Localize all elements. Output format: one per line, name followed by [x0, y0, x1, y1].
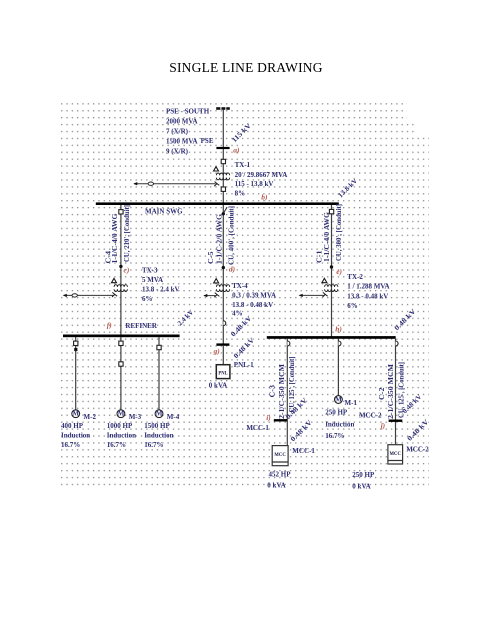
- TX-2 ground arrow: [299, 294, 303, 297]
- TX-3 neutral ground wire: [64, 294, 114, 296]
- junction dot C-5: [222, 266, 225, 269]
- svg-text:PNL-1: PNL-1: [234, 361, 254, 369]
- TX-1 neutral resistor ellipse: [148, 182, 153, 185]
- transformer TX-2 delta: [322, 278, 327, 282]
- svg-text:16.7%: 16.7%: [61, 441, 80, 449]
- svg-text:8%: 8%: [235, 190, 246, 198]
- svg-text:b): b): [261, 192, 268, 201]
- svg-text:7 (X/R): 7 (X/R): [166, 127, 189, 135]
- svg-text:MAIN SWG: MAIN SWG: [145, 207, 183, 215]
- svg-text:MCC: MCC: [274, 453, 286, 458]
- svg-text:TX-2: TX-2: [347, 273, 363, 281]
- M-3 ratings: [107, 422, 136, 449]
- transformer TX-1 windings: [216, 173, 229, 175]
- breaker M-2: [74, 341, 78, 345]
- fuse C-3: [287, 341, 290, 346]
- fuse C-2: [396, 341, 399, 346]
- svg-text:M-3: M-3: [129, 413, 142, 421]
- svg-text:6%: 6%: [347, 302, 358, 310]
- svg-text:115 - 13.8 kV: 115 - 13.8 kV: [235, 180, 274, 188]
- TX-1 ground arrow: [133, 182, 137, 185]
- transformer TX-1 delta: [214, 167, 219, 171]
- svg-text:a): a): [233, 145, 240, 154]
- breaker CB1: [221, 159, 225, 163]
- transformer TX-2 label: [347, 273, 389, 310]
- bus PSE: [216, 147, 229, 149]
- svg-text:Induction: Induction: [107, 432, 136, 440]
- utility source PSE-SOUTH: [216, 107, 230, 110]
- cable C-4 labels: [105, 205, 131, 264]
- cable C-2 labels: [378, 362, 405, 419]
- svg-text:9 (X/R): 9 (X/R): [166, 147, 189, 155]
- svg-text:2-1/C-350 MCM: 2-1/C-350 MCM: [387, 364, 395, 419]
- transformer TX-1 label: [235, 161, 288, 198]
- transformer TX-3 delta: [112, 278, 117, 282]
- svg-text:SINGLE LINE DRAWING: SINGLE LINE DRAWING: [169, 60, 322, 75]
- svg-text:h): h): [335, 325, 342, 334]
- svg-text:20 / 29.8667 MVA: 20 / 29.8667 MVA: [235, 171, 288, 179]
- TX-2 neutral ground wire: [299, 294, 324, 296]
- utility label PSE - SOUTH ratings: [166, 107, 210, 155]
- wire cable C-3: [286, 339, 288, 446]
- svg-text:6%: 6%: [142, 295, 153, 303]
- wire cable C-4: [120, 205, 122, 336]
- svg-text:j): j): [380, 421, 386, 430]
- svg-text:TX-4: TX-4: [232, 282, 248, 290]
- svg-text:2-1/C-350 MCM: 2-1/C-350 MCM: [278, 364, 286, 419]
- transformer TX-3 label: [142, 267, 180, 303]
- svg-text:250 HP: 250 HP: [352, 471, 375, 479]
- load MCC-1 box: [272, 446, 288, 466]
- svg-text:TX-1: TX-1: [235, 161, 251, 169]
- wire g bus to PNL-1: [222, 346, 224, 365]
- bus MCC-1: [274, 419, 287, 421]
- junction dot C-4: [119, 265, 122, 268]
- svg-text:TX-3: TX-3: [142, 267, 158, 275]
- svg-text:CU, 210', [Conduit]: CU, 210', [Conduit]: [123, 205, 131, 262]
- svg-text:M: M: [118, 410, 125, 418]
- svg-text:1500 MVA: 1500 MVA: [166, 137, 198, 145]
- svg-text:e): e): [336, 267, 342, 276]
- contactor M-2: [74, 348, 77, 351]
- cable C-3 labels: [269, 357, 297, 420]
- svg-text:M: M: [156, 410, 163, 418]
- svg-text:Induction: Induction: [144, 432, 173, 440]
- bus g 0.48kV: [216, 343, 229, 345]
- svg-text:c): c): [124, 266, 130, 275]
- motor M-4: [155, 410, 163, 418]
- transformer TX-4 delta: [214, 279, 219, 283]
- svg-text:1-1/C-4/0 AWG: 1-1/C-4/0 AWG: [111, 213, 119, 264]
- svg-text:4%: 4%: [232, 310, 243, 318]
- panel PNL-1 box: [216, 365, 230, 379]
- cable C-1 labels: [316, 204, 344, 263]
- svg-text:M-1: M-1: [345, 399, 358, 407]
- svg-text:0 kVA: 0 kVA: [267, 482, 285, 490]
- wire cable C-5: [222, 205, 224, 344]
- grid dots: [61, 103, 429, 486]
- switch tick C-5: [223, 207, 227, 213]
- svg-text:1-1/C-2/0 AWG: 1-1/C-2/0 AWG: [215, 213, 223, 264]
- wire PSE bus to breaker: [222, 149, 224, 204]
- breaker C-1 top: [329, 209, 333, 213]
- svg-text:5 MVA: 5 MVA: [142, 276, 163, 284]
- wire source to PSE bus: [222, 110, 224, 148]
- svg-text:13.8 - 2.4 kV: 13.8 - 2.4 kV: [142, 286, 180, 294]
- svg-text:C-5: C-5: [207, 251, 215, 264]
- svg-text:i): i): [266, 413, 271, 422]
- svg-text:PSE: PSE: [201, 137, 214, 145]
- breaker CB2: [221, 187, 225, 191]
- svg-text:16.7%: 16.7%: [144, 441, 163, 449]
- svg-text:g): g): [213, 347, 221, 356]
- junction dot C-1: [330, 265, 333, 268]
- motor M-2: [72, 410, 80, 418]
- svg-text:MCC-1: MCC-1: [292, 447, 315, 455]
- fuse on PNL feeder: [223, 321, 225, 326]
- svg-text:0 kVA: 0 kVA: [209, 382, 227, 390]
- motor M-3: [117, 410, 125, 418]
- svg-text:452 HP: 452 HP: [269, 471, 292, 479]
- wire drop M-2: [75, 337, 77, 410]
- svg-text:Induction: Induction: [325, 421, 354, 429]
- bus MCC-2: [389, 420, 403, 422]
- transformer TX-3 windings: [114, 285, 127, 287]
- fuse M-1: [339, 341, 342, 346]
- breaker M-4: [157, 345, 161, 349]
- transformer TX-2 wye: [323, 292, 328, 297]
- svg-text:CU, 400', [Conduit]: CU, 400', [Conduit]: [227, 206, 235, 265]
- svg-text:REFINER: REFINER: [125, 322, 157, 330]
- svg-text:2000 MVA: 2000 MVA: [166, 117, 198, 125]
- svg-text:MCC: MCC: [389, 452, 401, 457]
- svg-text:C-3: C-3: [269, 384, 277, 397]
- TX-4 neutral ground wire: [204, 295, 216, 297]
- svg-text:C-2: C-2: [378, 387, 386, 400]
- TX-4 ground arrow: [203, 294, 207, 297]
- bus h 0.48kV: [267, 336, 396, 339]
- TX-3 ground arrow: [63, 294, 67, 297]
- cable C-5 labels: [207, 206, 235, 265]
- wire cable C-1: [331, 205, 333, 338]
- svg-text:1 / 1.288 MVA: 1 / 1.288 MVA: [347, 283, 389, 291]
- M-2 ratings: [61, 422, 90, 449]
- svg-text:d): d): [229, 265, 236, 274]
- svg-text:13.8 - 0.48 kV: 13.8 - 0.48 kV: [347, 293, 388, 301]
- svg-text:M: M: [335, 395, 342, 403]
- transformer TX-4 windings: [216, 285, 229, 287]
- svg-text:250 HP: 250 HP: [325, 409, 348, 417]
- transformer TX-1 wye: [214, 182, 219, 187]
- svg-text:0 kVA: 0 kVA: [352, 483, 370, 491]
- svg-text:1000 HP: 1000 HP: [107, 422, 133, 430]
- svg-text:M: M: [72, 410, 79, 418]
- junction dot C-5 top: [222, 212, 225, 215]
- TX-3 neutral resistor ellipse: [72, 294, 77, 297]
- bus REFINER: [63, 335, 180, 338]
- TX-1 neutral ground wire: [134, 183, 216, 185]
- load MCC-2 box: [388, 445, 403, 464]
- M-4 ratings: [144, 422, 173, 449]
- svg-text:16.7%: 16.7%: [325, 432, 344, 440]
- motor M-1: [335, 396, 343, 404]
- svg-text:0.3 / 0.39 MVA: 0.3 / 0.39 MVA: [232, 292, 276, 300]
- wire drop M-4: [158, 337, 160, 410]
- transformer TX-2 windings: [325, 285, 338, 287]
- transformer TX-4 wye: [214, 293, 219, 298]
- svg-text:16.7%: 16.7%: [107, 441, 126, 449]
- svg-text:M-2: M-2: [84, 413, 97, 421]
- svg-text:MCC-2: MCC-2: [406, 446, 429, 454]
- svg-text:M-4: M-4: [167, 413, 180, 421]
- svg-text:13.8 - 0.48 kV: 13.8 - 0.48 kV: [232, 301, 273, 309]
- svg-text:CU, 300', [Conduit]: CU, 300', [Conduit]: [335, 204, 343, 261]
- bus MAIN SWG: [96, 202, 339, 205]
- svg-text:PNL: PNL: [218, 370, 228, 376]
- breaker M-3: [119, 341, 123, 345]
- svg-text:Induction: Induction: [61, 432, 90, 440]
- svg-text:1500 HP: 1500 HP: [144, 422, 170, 430]
- wire cable C-2: [395, 339, 397, 445]
- transformer TX-4 label: [232, 282, 276, 318]
- transformer TX-3 wye: [112, 292, 117, 297]
- MCC-1 ratings: [267, 471, 291, 490]
- M-1 ratings: [325, 409, 354, 441]
- breaker C-4 top: [119, 210, 123, 214]
- svg-text:f): f): [107, 321, 112, 330]
- wire drop M-3: [120, 337, 122, 410]
- svg-text:MCC-2: MCC-2: [359, 412, 382, 420]
- svg-text:1-1/C-4/0 AWG: 1-1/C-4/0 AWG: [323, 211, 331, 262]
- wire drop M-1: [337, 339, 339, 396]
- svg-text:MCC-1: MCC-1: [246, 424, 269, 432]
- svg-text:400 HP: 400 HP: [61, 422, 84, 430]
- MCC-2 ratings: [352, 471, 375, 491]
- svg-text:PSE - SOUTH: PSE - SOUTH: [166, 107, 210, 115]
- breaker M-3 lower: [119, 362, 123, 366]
